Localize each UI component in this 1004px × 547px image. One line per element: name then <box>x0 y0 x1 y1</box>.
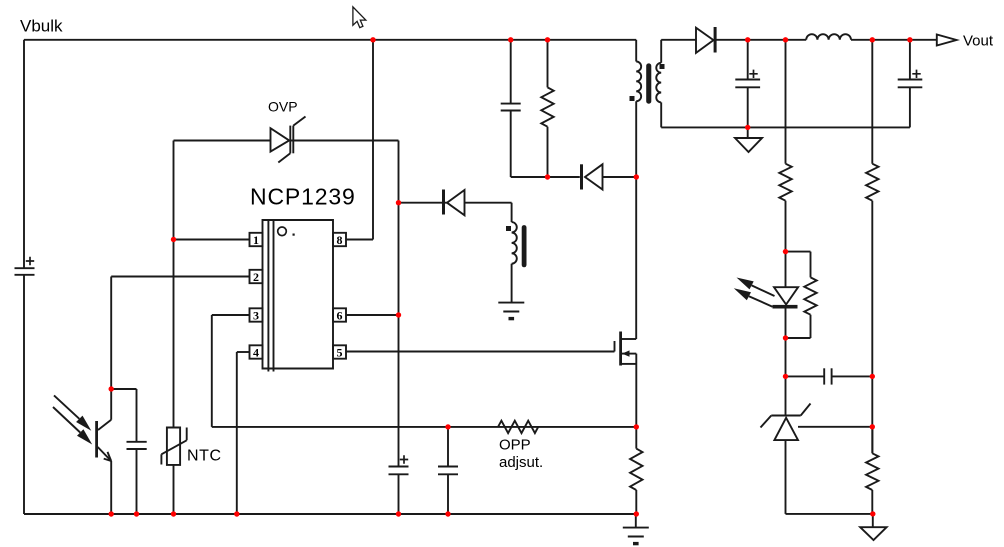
svg-text:1: 1 <box>253 233 259 247</box>
svg-text:6: 6 <box>337 309 343 323</box>
svg-text:3: 3 <box>253 309 259 323</box>
svg-text:NCP1239: NCP1239 <box>250 184 356 210</box>
svg-text:adjsut.: adjsut. <box>499 454 543 471</box>
svg-text:8: 8 <box>337 233 343 247</box>
svg-text:2: 2 <box>253 270 259 284</box>
svg-text:5: 5 <box>337 346 343 360</box>
svg-text:Vout: Vout <box>963 33 994 50</box>
svg-text:4: 4 <box>253 346 259 360</box>
svg-text:Vbulk: Vbulk <box>20 17 63 36</box>
svg-text:OPP: OPP <box>499 437 531 454</box>
svg-text:OVP: OVP <box>268 99 298 115</box>
svg-text:NTC: NTC <box>187 448 222 465</box>
